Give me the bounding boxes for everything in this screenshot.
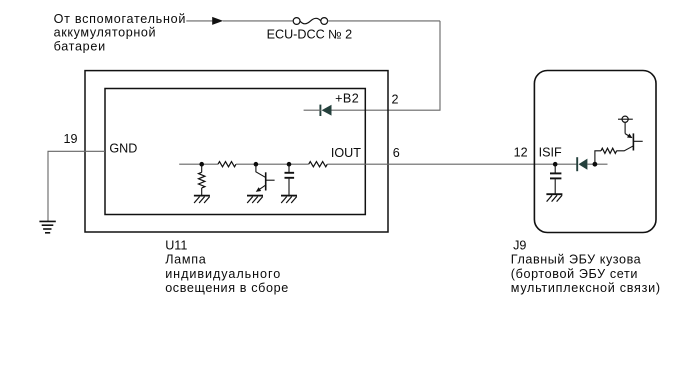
wire Q2 emitter to supply circle <box>624 122 626 133</box>
svg-text:19: 19 <box>63 132 77 146</box>
resistor R3 vertical <box>199 164 205 195</box>
ground G4 <box>546 194 562 201</box>
svg-text:освещения в сборе: освещения в сборе <box>165 281 289 295</box>
resistor R4 <box>601 148 617 153</box>
svg-text:GND: GND <box>109 142 137 156</box>
svg-text:2: 2 <box>392 93 399 107</box>
transistor Q2 <box>625 133 643 150</box>
node junction 1 <box>199 162 204 167</box>
svg-text:Главный ЭБУ кузова: Главный ЭБУ кузова <box>511 253 641 267</box>
svg-text:IOUT: IOUT <box>331 146 361 160</box>
supply connection bar <box>618 118 633 120</box>
capacitor C2 <box>550 164 561 194</box>
svg-text:ISIF: ISIF <box>539 145 562 159</box>
wire R4 to Q2 base <box>617 146 634 151</box>
U11 inner box <box>105 89 365 215</box>
capacitor C1 <box>285 164 295 195</box>
node junction 4 <box>553 162 558 167</box>
U11 caption <box>165 238 289 295</box>
node junction 3 <box>287 162 292 167</box>
arrow feed direction <box>212 17 223 25</box>
svg-text:От вспомогательной: От вспомогательной <box>54 12 187 26</box>
U11 outer box <box>85 71 388 232</box>
ground G3 <box>281 196 297 203</box>
J9 box <box>534 71 656 233</box>
ground G1 <box>194 196 210 203</box>
svg-text:аккумуляторной: аккумуляторной <box>54 26 157 40</box>
wire R1 to C1 node <box>236 163 309 165</box>
svg-text:U11: U11 <box>165 238 187 252</box>
diode D1 +B2 <box>320 105 331 116</box>
ground G2 <box>247 196 263 203</box>
svg-text:6: 6 <box>393 146 400 160</box>
svg-text:ECU-DCC № 2: ECU-DCC № 2 <box>267 28 353 42</box>
svg-text:J9: J9 <box>513 238 526 252</box>
transistor Q1 <box>256 164 275 192</box>
svg-text:батареи: батареи <box>54 40 106 54</box>
resistor R1 <box>218 162 236 167</box>
wire vertical drop to pin 2 <box>332 21 441 110</box>
wire D1 anode stub <box>304 109 322 111</box>
resistor R2 <box>309 162 328 167</box>
svg-text:Лампа: Лампа <box>165 253 206 267</box>
wire node up to R4 <box>595 151 601 164</box>
wire arrow to fuse <box>223 20 293 22</box>
svg-text:мультиплексной связи): мультиплексной связи) <box>511 281 661 295</box>
supply connection circle <box>622 116 628 122</box>
svg-text:12: 12 <box>514 145 528 159</box>
wire D2 to node <box>587 163 607 165</box>
J9 caption <box>511 238 661 295</box>
diode D2 <box>577 157 587 171</box>
wire internal bus left <box>179 163 218 165</box>
fuse ECU-DCC No 2 <box>293 18 327 25</box>
wire battery feed to arrow <box>186 20 212 22</box>
wire R2 through pin 6 to J9 <box>327 163 576 165</box>
wire fuse to corner <box>328 20 440 22</box>
node: from auxiliary battery label <box>54 12 187 54</box>
svg-text:+B2: +B2 <box>335 91 359 105</box>
node junction 5 <box>593 162 598 167</box>
svg-text:(бортовой ЭБУ сети: (бортовой ЭБУ сети <box>511 267 638 281</box>
node junction 2 <box>254 162 259 167</box>
earth ground <box>39 221 55 232</box>
svg-text:индивидуального: индивидуального <box>165 267 281 281</box>
wire GND pin 19 <box>48 151 105 221</box>
